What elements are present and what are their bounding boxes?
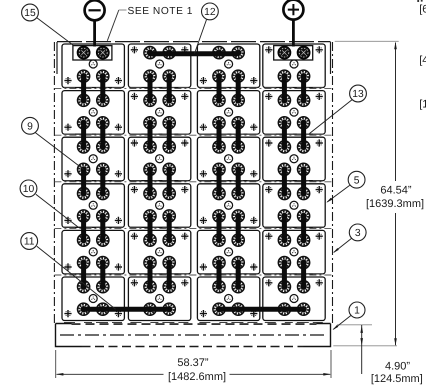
cell R1C1 terminals and vent: [64, 46, 122, 85]
connector link row5-row6 col2R: [167, 263, 172, 287]
connector link row5-row6 col1R: [100, 263, 105, 287]
balloon 11: [21, 233, 38, 250]
see-note tick: [119, 9, 127, 11]
extension line bottom right: [330, 350, 332, 378]
clipped dim text top right: [417, 0, 426, 16]
dim 58.37 line left: [57, 373, 164, 375]
cell R6C3 terminals and vent: [200, 281, 258, 318]
battery cell R4C4 case: [263, 184, 325, 228]
cell R5C3 terminals and vent: [200, 234, 258, 271]
dim 64.54 line upper: [395, 43, 397, 181]
connector link row2-row3 col1L: [81, 123, 86, 147]
cell R5C1 label text strip: [64, 273, 122, 275]
battery cell R3C1 case: [62, 137, 124, 181]
balloon 9: [22, 117, 39, 134]
dim 58.37 arrow left: [56, 373, 64, 376]
connector link row5-row6 col2L: [148, 263, 153, 287]
svg-text:5: 5: [354, 175, 360, 186]
connector link row4-row5 col3L: [217, 216, 222, 240]
battery cell R1C2 case: [128, 44, 190, 88]
connector link row3-row4 col3R: [236, 169, 241, 193]
cell R1C1 label text strip: [64, 87, 122, 89]
battery cell R2C4 case: [263, 91, 325, 135]
cell R3C1 label text strip: [64, 180, 122, 182]
cell R3C1 terminals and vent: [64, 141, 122, 178]
battery cell R5C4 case: [263, 230, 325, 274]
cell R1C3 label text strip: [199, 87, 257, 89]
svg-text:[1482.6mm]: [1482.6mm]: [168, 371, 226, 383]
cell R1C2 terminals and vent: [131, 46, 189, 82]
connector link row3-row4 col2R: [167, 169, 172, 193]
cell R4C4 label text strip: [265, 226, 323, 228]
svg-text:11: 11: [24, 237, 35, 248]
tray centerline: [60, 334, 326, 336]
cell R6C3 label text strip: [199, 322, 257, 324]
battery cell R2C3 case: [197, 91, 259, 135]
connector link row2-row3 col2L: [148, 123, 153, 147]
balloon 5 leader: [327, 185, 350, 202]
cell R4C1 label text strip: [64, 226, 122, 228]
battery cell R2C1 case: [62, 91, 124, 135]
connector link row4-row5 col1L: [81, 216, 86, 240]
rack right phantom edge: [332, 42, 334, 324]
rack left phantom edge: [53, 42, 55, 324]
cell R5C3 label text strip: [199, 273, 257, 275]
cell R2C3 terminals and vent: [200, 94, 258, 131]
balloon 10: [20, 180, 37, 197]
cell R6C1 label text strip: [64, 322, 122, 324]
svg-text:[4: [4: [419, 55, 426, 67]
connector link row4-row5 col1R: [100, 216, 105, 240]
connector link row5-row6 col1L: [81, 263, 86, 287]
battery cell R6C3 case: [197, 277, 259, 321]
dim 4.90 arrow down: [360, 338, 363, 346]
shelf hidden line row 6: [54, 274, 332, 276]
balloon 15 leader: [37, 18, 74, 46]
shelf hidden line row 4: [54, 181, 332, 183]
connector link row4-row5 col4R: [301, 216, 306, 240]
balloon 1: [349, 302, 365, 318]
battery cell R1C4 case: [263, 44, 325, 88]
cell R2C2 terminals and vent: [131, 93, 189, 129]
cell R3C2 label text strip: [130, 180, 188, 182]
cell R5C4 terminals and vent: [265, 233, 323, 269]
balloon 11 leader: [37, 246, 116, 309]
cell R2C4 terminals and vent: [265, 93, 323, 129]
balloon 3 leader: [334, 238, 352, 252]
svg-text:1: 1: [354, 306, 360, 317]
shelf hidden line row 3: [54, 134, 332, 136]
connector link row1-row2 col1L: [81, 76, 86, 100]
negative post stem: [93, 21, 96, 47]
cell R4C3 label text strip: [199, 226, 257, 228]
connector link row5-row6 col3L: [217, 263, 222, 287]
battery cell R1C3 case: [197, 44, 259, 88]
connector link row1-row2 col3R: [236, 76, 241, 100]
dim 64.54 arrow down: [394, 338, 397, 346]
battery cell R4C2 case: [128, 184, 190, 228]
svg-text:13: 13: [352, 89, 364, 100]
svg-text:64.54”: 64.54”: [380, 185, 412, 197]
connector link row3-row4 col4L: [282, 169, 287, 193]
balloon 10 leader: [36, 194, 79, 228]
battery cell R4C3 case: [197, 184, 259, 228]
bottom link bar cols 1-2: [84, 307, 170, 312]
connector link row5-row6 col4L: [282, 263, 287, 287]
svg-text:12: 12: [204, 7, 216, 18]
svg-text:3: 3: [355, 228, 361, 239]
battery cell R3C3 case: [197, 137, 259, 181]
svg-text:58.37”: 58.37”: [177, 357, 209, 369]
connector link row5-row6 col4R: [301, 263, 306, 287]
connector link row3-row4 col3L: [217, 169, 222, 193]
cell R4C4 terminals and vent: [265, 186, 323, 222]
battery cell R5C2 case: [128, 230, 190, 274]
dim 64.54 line lower: [395, 213, 397, 345]
battery cell R5C3 case: [197, 230, 259, 274]
connector link row2-row3 col2R: [167, 123, 172, 147]
see-note leader: [107, 10, 119, 41]
connector link row2-row3 col4R: [301, 123, 306, 147]
connector link row1-row2 col3L: [217, 76, 222, 100]
cell R6C4 label text strip: [265, 322, 323, 324]
balloon 9 leader: [34, 132, 83, 170]
bottom link bar cols 3-4: [219, 307, 304, 312]
battery cell R5C1 case: [62, 230, 124, 274]
extension line tray bottom right: [333, 345, 397, 347]
balloon 13 leader: [310, 100, 353, 134]
cell R3C2 terminals and vent: [131, 139, 189, 175]
connector link row5-row6 col3R: [236, 263, 241, 287]
base tray: [56, 324, 331, 347]
cell R1C3 terminals and vent: [200, 47, 258, 85]
connector link row3-row4 col1R: [100, 169, 105, 193]
cell R1C2 label text strip: [130, 87, 188, 89]
battery cell R6C1 case: [62, 277, 124, 321]
battery cell R2C2 case: [128, 91, 190, 135]
cell R4C2 label text strip: [130, 226, 188, 228]
balloon 15: [22, 4, 39, 21]
svg-text:[124.5mm]: [124.5mm]: [371, 373, 423, 385]
negative post symbol: [85, 0, 105, 20]
balloon 13: [350, 85, 367, 102]
connector link row4-row5 col3R: [236, 216, 241, 240]
extension line tray top right: [337, 324, 372, 326]
connector link row2-row3 col3L: [217, 123, 222, 147]
cell R4C1 terminals and vent: [64, 187, 122, 224]
top inter-string link bar (cols 2-3): [150, 51, 238, 56]
extension line bottom left: [55, 350, 57, 378]
positive post stem: [292, 20, 295, 47]
battery cell R6C2 case: [128, 277, 190, 321]
svg-text:[6: [6: [419, 4, 426, 16]
cell R2C1 terminals and vent: [64, 94, 122, 131]
svg-text:[1639.3mm]: [1639.3mm]: [366, 198, 424, 210]
cell R5C2 label text strip: [130, 273, 188, 275]
balloon 3: [349, 224, 366, 241]
battery cell R6C4 case: [263, 277, 325, 321]
cell R6C1 terminals and vent: [64, 281, 122, 318]
cell R2C4 label text strip: [265, 133, 323, 135]
svg-text:9: 9: [27, 121, 33, 132]
connector link row2-row3 col1R: [100, 123, 105, 147]
cell R5C1 terminals and vent: [64, 234, 122, 271]
cell R2C3 label text strip: [199, 133, 257, 135]
connector link row2-row3 col4L: [282, 123, 287, 147]
cell R3C3 label text strip: [199, 180, 257, 182]
connector link row1-row2 col2R: [167, 76, 172, 100]
connector link row3-row4 col2L: [148, 169, 153, 193]
cell R3C4 terminals and vent: [265, 139, 323, 175]
svg-text:10: 10: [23, 184, 35, 195]
connector link row3-row4 col1L: [81, 169, 86, 193]
battery cell R1C1 case: [62, 44, 124, 88]
cell R6C4 terminals and vent: [265, 279, 323, 315]
cell R2C1 label text strip: [64, 133, 122, 135]
balloon 1 leader: [333, 315, 351, 329]
cell R1C4 terminals and vent: [265, 46, 323, 83]
balloon 5: [348, 171, 365, 188]
cell R3C4 label text strip: [265, 180, 323, 182]
balloon 12 leader: [195, 20, 207, 54]
dim 58.37 arrow right: [323, 373, 331, 376]
connector link row1-row2 col1R: [100, 76, 105, 100]
svg-text:15: 15: [24, 8, 36, 19]
svg-text:[1: [1: [419, 99, 426, 111]
cell R2C2 label text strip: [130, 133, 188, 135]
battery cell R3C2 case: [128, 137, 190, 181]
cell R5C4 label text strip: [265, 273, 323, 275]
cell R5C2 terminals and vent: [131, 233, 189, 269]
battery cell R4C1 case: [62, 184, 124, 228]
connector link row1-row2 col2L: [148, 76, 153, 100]
cell R6C2 terminals and vent: [131, 279, 189, 315]
svg-text:4.90”: 4.90”: [385, 361, 410, 373]
battery cell R3C4 case: [263, 137, 325, 181]
connector link row4-row5 col2R: [167, 216, 172, 240]
battery rack top edge: [57, 41, 331, 43]
shelf hidden line row 2: [54, 88, 332, 90]
rack right front corner: [330, 42, 332, 74]
extension line top right: [335, 40, 399, 42]
connector link row1-row2 col4L: [282, 76, 287, 100]
dim 4.90 line: [361, 325, 363, 374]
cell R3C3 terminals and vent: [200, 141, 258, 178]
shelf hidden line row 5: [54, 227, 332, 229]
cell R6C2 label text strip: [130, 322, 188, 324]
cell R1C4 label text strip: [265, 87, 323, 89]
cell R4C2 terminals and vent: [131, 186, 189, 222]
connector link row3-row4 col4R: [301, 169, 306, 193]
connector link row2-row3 col3R: [236, 123, 241, 147]
connector link row1-row2 col4R: [301, 76, 306, 100]
svg-text:SEE NOTE 1: SEE NOTE 1: [128, 6, 194, 17]
dim 64.54 arrow up: [394, 42, 397, 50]
positive post symbol: [283, 0, 303, 20]
dim 58.37 line right: [230, 373, 331, 375]
connector link row4-row5 col2L: [148, 216, 153, 240]
connector link row4-row5 col4L: [282, 216, 287, 240]
dim 4.90 arrow up: [360, 325, 363, 333]
balloon 12: [202, 3, 219, 20]
rack left front corner: [56, 42, 58, 74]
cell R4C3 terminals and vent: [200, 187, 258, 224]
